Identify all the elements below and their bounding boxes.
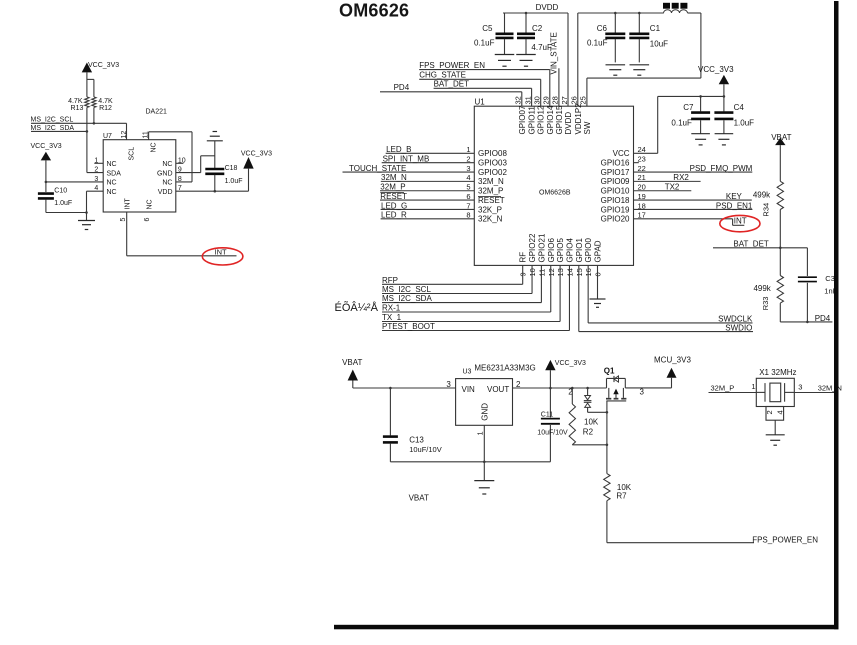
svg-text:C2: C2 (532, 24, 543, 33)
svg-text:4.7K: 4.7K (98, 98, 113, 105)
svg-text:499k: 499k (753, 284, 771, 293)
svg-text:VDD: VDD (158, 189, 173, 196)
svg-text:C18: C18 (225, 165, 238, 172)
svg-text:30: 30 (533, 96, 542, 104)
svg-text:VCC_3V3: VCC_3V3 (88, 62, 119, 69)
svg-text:SW: SW (583, 121, 592, 134)
svg-text:2: 2 (466, 154, 470, 163)
svg-text:C4: C4 (734, 103, 745, 112)
svg-text:RX2: RX2 (673, 173, 689, 182)
svg-text:R7: R7 (616, 492, 627, 501)
svg-text:BAT_DET: BAT_DET (733, 239, 769, 248)
svg-text:3: 3 (798, 383, 802, 392)
svg-text:RESET: RESET (478, 196, 505, 205)
svg-text:C10: C10 (54, 188, 67, 195)
svg-text:PSD_FMQ_PWM: PSD_FMQ_PWM (690, 164, 753, 173)
svg-text:PSD_EN1: PSD_EN1 (716, 201, 753, 210)
svg-text:NC: NC (107, 189, 117, 196)
svg-text:3: 3 (446, 380, 451, 389)
svg-text:C1: C1 (650, 24, 661, 33)
svg-text:GPIO02: GPIO02 (478, 168, 507, 177)
svg-text:32K_P: 32K_P (478, 205, 502, 214)
svg-text:12: 12 (121, 131, 128, 139)
svg-text:32M_N: 32M_N (381, 173, 407, 182)
svg-text:OM6626: OM6626 (339, 0, 409, 20)
svg-text:FPS_POWER_EN: FPS_POWER_EN (419, 61, 485, 70)
svg-text:GPIO19: GPIO19 (601, 205, 630, 214)
svg-text:2: 2 (568, 388, 573, 397)
svg-text:TX_1: TX_1 (382, 313, 402, 322)
svg-text:3: 3 (466, 164, 470, 173)
svg-text:0.1uF: 0.1uF (671, 119, 692, 128)
svg-text:C7: C7 (683, 103, 694, 112)
svg-text:2: 2 (94, 167, 98, 174)
svg-text:VCC_3V3: VCC_3V3 (31, 143, 62, 150)
svg-text:GND: GND (157, 170, 173, 177)
svg-text:NC: NC (146, 199, 153, 209)
svg-text:OM6626B: OM6626B (539, 190, 571, 197)
svg-text:32K_N: 32K_N (478, 215, 503, 224)
svg-text:21: 21 (638, 173, 646, 182)
svg-text:LED_G: LED_G (381, 201, 407, 210)
svg-text:GPIO22: GPIO22 (528, 233, 537, 262)
svg-text:1: 1 (751, 382, 755, 391)
svg-text:GPIO11: GPIO11 (528, 106, 537, 135)
svg-text:1: 1 (466, 145, 470, 154)
svg-text:SWDIO: SWDIO (725, 323, 752, 332)
svg-text:VCC_3V3: VCC_3V3 (555, 360, 586, 367)
svg-text:17: 17 (638, 211, 646, 220)
svg-text:NC: NC (150, 142, 157, 152)
svg-text:VDD1P2: VDD1P2 (574, 103, 583, 135)
svg-text:BAT_DET: BAT_DET (434, 79, 470, 88)
svg-text:R13: R13 (71, 105, 84, 112)
svg-text:GPIO18: GPIO18 (601, 196, 630, 205)
svg-text:GND: GND (480, 403, 489, 421)
svg-text:NC: NC (162, 161, 172, 168)
svg-text:R12: R12 (99, 105, 112, 112)
svg-text:32M_P: 32M_P (711, 384, 735, 393)
svg-text:9: 9 (178, 167, 182, 174)
svg-text:DVDD: DVDD (564, 112, 573, 135)
svg-text:25: 25 (579, 96, 588, 104)
svg-text:GPIO6: GPIO6 (547, 237, 556, 262)
svg-text:ME6231A33M3G: ME6231A33M3G (474, 364, 535, 373)
svg-text:FPS_POWER_EN: FPS_POWER_EN (752, 535, 818, 544)
svg-text:GPAD: GPAD (594, 240, 603, 262)
svg-text:SPI_INT_MB: SPI_INT_MB (383, 154, 430, 163)
svg-text:GPIO5: GPIO5 (556, 237, 565, 262)
svg-text:VIN_STATE: VIN_STATE (550, 32, 559, 74)
svg-text:C5: C5 (482, 24, 493, 33)
svg-text:10: 10 (178, 157, 186, 164)
svg-text:RX-1: RX-1 (382, 304, 401, 313)
svg-text:C3: C3 (825, 274, 835, 283)
svg-text:1: 1 (94, 157, 98, 164)
svg-text:TX2: TX2 (665, 183, 680, 192)
svg-text:NC: NC (162, 180, 172, 187)
svg-text:GPIO12: GPIO12 (537, 105, 546, 134)
svg-text:6: 6 (466, 192, 470, 201)
svg-text:DA221: DA221 (146, 109, 168, 116)
svg-text:SCL: SCL (129, 147, 136, 161)
svg-text:LED_B: LED_B (386, 145, 411, 154)
svg-text:U3: U3 (463, 368, 472, 375)
svg-text:R34: R34 (762, 203, 771, 217)
svg-text:R33: R33 (761, 297, 770, 311)
svg-text:10K: 10K (584, 417, 599, 426)
svg-text:19: 19 (638, 192, 646, 201)
svg-text:0.1uF: 0.1uF (474, 39, 495, 48)
svg-text:8: 8 (178, 176, 182, 183)
svg-text:R2: R2 (583, 428, 594, 437)
svg-text:VCC_3V3: VCC_3V3 (698, 65, 734, 74)
svg-text:GPIO4: GPIO4 (565, 237, 574, 262)
svg-text:4.7K: 4.7K (68, 98, 83, 105)
svg-text:MS_I2C_SDA: MS_I2C_SDA (31, 125, 75, 132)
svg-text:3: 3 (94, 176, 98, 183)
svg-text:1.0uF: 1.0uF (225, 178, 243, 185)
svg-text:499k: 499k (753, 191, 771, 200)
svg-text:PD4: PD4 (815, 314, 831, 323)
svg-text:1.0uF: 1.0uF (54, 200, 72, 207)
svg-text:KEY: KEY (726, 192, 743, 201)
svg-text:C6: C6 (597, 24, 608, 33)
svg-text:10uF/10V: 10uF/10V (537, 430, 568, 437)
svg-text:18: 18 (638, 201, 646, 210)
svg-text:4: 4 (94, 185, 98, 192)
svg-text:32M_P: 32M_P (380, 183, 405, 192)
svg-text:1: 1 (476, 431, 485, 435)
svg-text:TOUCH_STATE: TOUCH_STATE (349, 164, 406, 173)
svg-text:GPIO10: GPIO10 (601, 187, 630, 196)
svg-text:INT: INT (125, 198, 132, 210)
svg-text:GPIO15: GPIO15 (555, 105, 564, 134)
svg-text:MS_I2C_SCL: MS_I2C_SCL (31, 117, 74, 124)
svg-text:RFP: RFP (382, 276, 398, 285)
svg-text:U1: U1 (475, 98, 486, 107)
svg-text:7: 7 (466, 201, 470, 210)
svg-text:GPIO14: GPIO14 (546, 105, 555, 134)
svg-text:GPIO08: GPIO08 (478, 149, 507, 158)
svg-text:4: 4 (775, 410, 784, 414)
svg-text:X1 32MHz: X1 32MHz (759, 368, 796, 377)
svg-text:PD4: PD4 (394, 83, 410, 92)
svg-text:GPIO20: GPIO20 (601, 215, 630, 224)
svg-text:GPIO07: GPIO07 (518, 105, 527, 134)
svg-text:3: 3 (640, 387, 645, 396)
svg-text:5: 5 (466, 183, 470, 192)
svg-text:ÉÕÂ¼²Å: ÉÕÂ¼²Å (335, 301, 379, 314)
svg-text:SDA: SDA (107, 170, 122, 177)
svg-text:MS_I2C_SDA: MS_I2C_SDA (382, 294, 432, 303)
svg-text:0.1uF: 0.1uF (587, 39, 608, 48)
svg-text:32M_N: 32M_N (478, 177, 504, 186)
svg-text:CHG_STATE: CHG_STATE (419, 71, 466, 80)
svg-text:VBAT: VBAT (342, 358, 362, 367)
svg-text:31: 31 (523, 96, 532, 104)
svg-text:GPIO03: GPIO03 (478, 158, 507, 167)
svg-text:MCU_3V3: MCU_3V3 (654, 355, 691, 364)
svg-text:VOUT: VOUT (487, 385, 509, 394)
svg-text:PTEST_BOOT: PTEST_BOOT (382, 322, 435, 331)
svg-text:VCC_3V3: VCC_3V3 (241, 150, 272, 157)
svg-text:GPIO0: GPIO0 (584, 237, 593, 262)
svg-text:Q1: Q1 (604, 366, 615, 375)
svg-text:INT: INT (734, 216, 747, 225)
svg-text:LED_R: LED_R (381, 211, 407, 220)
svg-text:GPIO09: GPIO09 (601, 177, 630, 186)
svg-text:U7: U7 (103, 133, 112, 140)
svg-text:32: 32 (514, 96, 523, 104)
svg-text:29: 29 (542, 96, 551, 104)
svg-text:NC: NC (107, 180, 117, 187)
svg-text:C11: C11 (541, 412, 553, 419)
svg-text:NC: NC (107, 161, 117, 168)
svg-text:27: 27 (560, 96, 569, 104)
svg-text:DVDD: DVDD (536, 3, 559, 12)
svg-text:GPIO1: GPIO1 (575, 237, 584, 262)
svg-text:MS_I2C_SCL: MS_I2C_SCL (382, 285, 431, 294)
svg-text:28: 28 (551, 96, 560, 104)
svg-text:GPIO21: GPIO21 (537, 233, 546, 262)
svg-text:4: 4 (466, 173, 470, 182)
svg-text:C13: C13 (409, 436, 424, 445)
svg-text:26: 26 (570, 96, 579, 104)
svg-text:32M_P: 32M_P (478, 187, 503, 196)
svg-text:SWDCLK: SWDCLK (718, 315, 753, 324)
svg-text:1.0uF: 1.0uF (734, 119, 755, 128)
svg-text:7: 7 (178, 185, 182, 192)
svg-text:10uF/10V: 10uF/10V (409, 445, 442, 454)
svg-text:GPIO17: GPIO17 (601, 168, 630, 177)
svg-text:10uF: 10uF (650, 40, 668, 49)
svg-text:RF: RF (519, 252, 528, 263)
svg-text:2: 2 (765, 410, 774, 414)
svg-text:VBAT: VBAT (409, 494, 429, 503)
svg-text:RESET: RESET (380, 192, 407, 201)
svg-text:20: 20 (638, 183, 646, 192)
svg-text:8: 8 (466, 211, 470, 220)
svg-text:6: 6 (144, 218, 151, 222)
svg-text:GPIO16: GPIO16 (601, 158, 630, 167)
svg-text:VIN: VIN (462, 385, 476, 394)
svg-text:VCC: VCC (613, 149, 630, 158)
